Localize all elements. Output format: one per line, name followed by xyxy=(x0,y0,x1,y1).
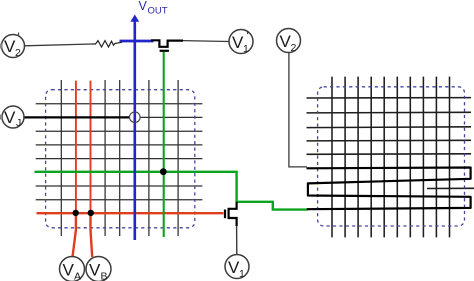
wire from Q1 to V1' xyxy=(183,40,229,43)
transistor Q1 gate bar xyxy=(160,50,169,52)
voltage source V1' xyxy=(229,30,253,54)
right crossbar nanowire grid rows xyxy=(307,98,474,189)
wire red column B xyxy=(90,81,92,213)
wire VOUT blue column with arrow xyxy=(134,21,137,241)
svg-text:A: A xyxy=(74,271,81,281)
svg-text:': ' xyxy=(247,29,249,43)
transistor Q1 channel and leads xyxy=(151,40,183,47)
voltage source V2' xyxy=(2,35,25,58)
wire from V2' to resistor xyxy=(25,44,93,46)
svg-text:V: V xyxy=(4,108,16,127)
svg-text:2: 2 xyxy=(15,47,21,59)
node junction dot VB xyxy=(88,210,94,216)
voltage source VA xyxy=(60,257,85,281)
voltage source V2 top xyxy=(277,29,301,53)
wire green column from Q1 gate xyxy=(163,52,165,237)
right crossbar nanowire grid columns xyxy=(332,77,450,238)
wire red lead to VA xyxy=(73,213,76,257)
svg-text:B: B xyxy=(101,271,108,281)
svg-text:1: 1 xyxy=(243,43,249,55)
svg-text:OUT: OUT xyxy=(148,6,168,17)
left crossbar nanowire grid rows xyxy=(36,104,203,200)
wire blue tap on top wire xyxy=(120,40,154,43)
wire VJ bold row xyxy=(24,116,130,118)
svg-text:2: 2 xyxy=(291,42,297,54)
svg-text:V: V xyxy=(89,261,101,280)
transistor Q2 channel and leads xyxy=(229,202,237,226)
svg-text:J: J xyxy=(16,117,21,129)
node junction dot green xyxy=(160,168,167,175)
wire from V2 down to serpentine row1 xyxy=(289,53,307,167)
wire green from drain node to right serpentine xyxy=(237,202,308,210)
node junction dot VA xyxy=(73,210,79,216)
svg-text:V: V xyxy=(139,0,148,13)
wire red column A xyxy=(75,81,77,213)
left array dashed border xyxy=(46,90,195,228)
transistor Q2 gate bar xyxy=(224,210,226,219)
svg-text:': ' xyxy=(18,30,20,44)
wire Q2 source to V1 xyxy=(236,226,238,256)
voltage source VB xyxy=(86,257,111,281)
wire red lead to VB xyxy=(91,213,93,257)
wire green row from left array to Q2 drain node xyxy=(35,172,237,202)
voltage source VJ xyxy=(2,106,24,128)
serpentine nanowire path xyxy=(307,168,471,210)
svg-text:1: 1 xyxy=(239,268,245,280)
left crossbar nanowire grid columns xyxy=(61,80,178,236)
svg-text:V: V xyxy=(63,261,75,280)
voltage source V1 bottom xyxy=(225,255,249,279)
node crosspoint marker circle xyxy=(130,112,141,123)
resistor R1 xyxy=(92,41,122,47)
right array dashed border xyxy=(318,87,465,226)
wire red row to Q2 gate xyxy=(37,212,224,214)
